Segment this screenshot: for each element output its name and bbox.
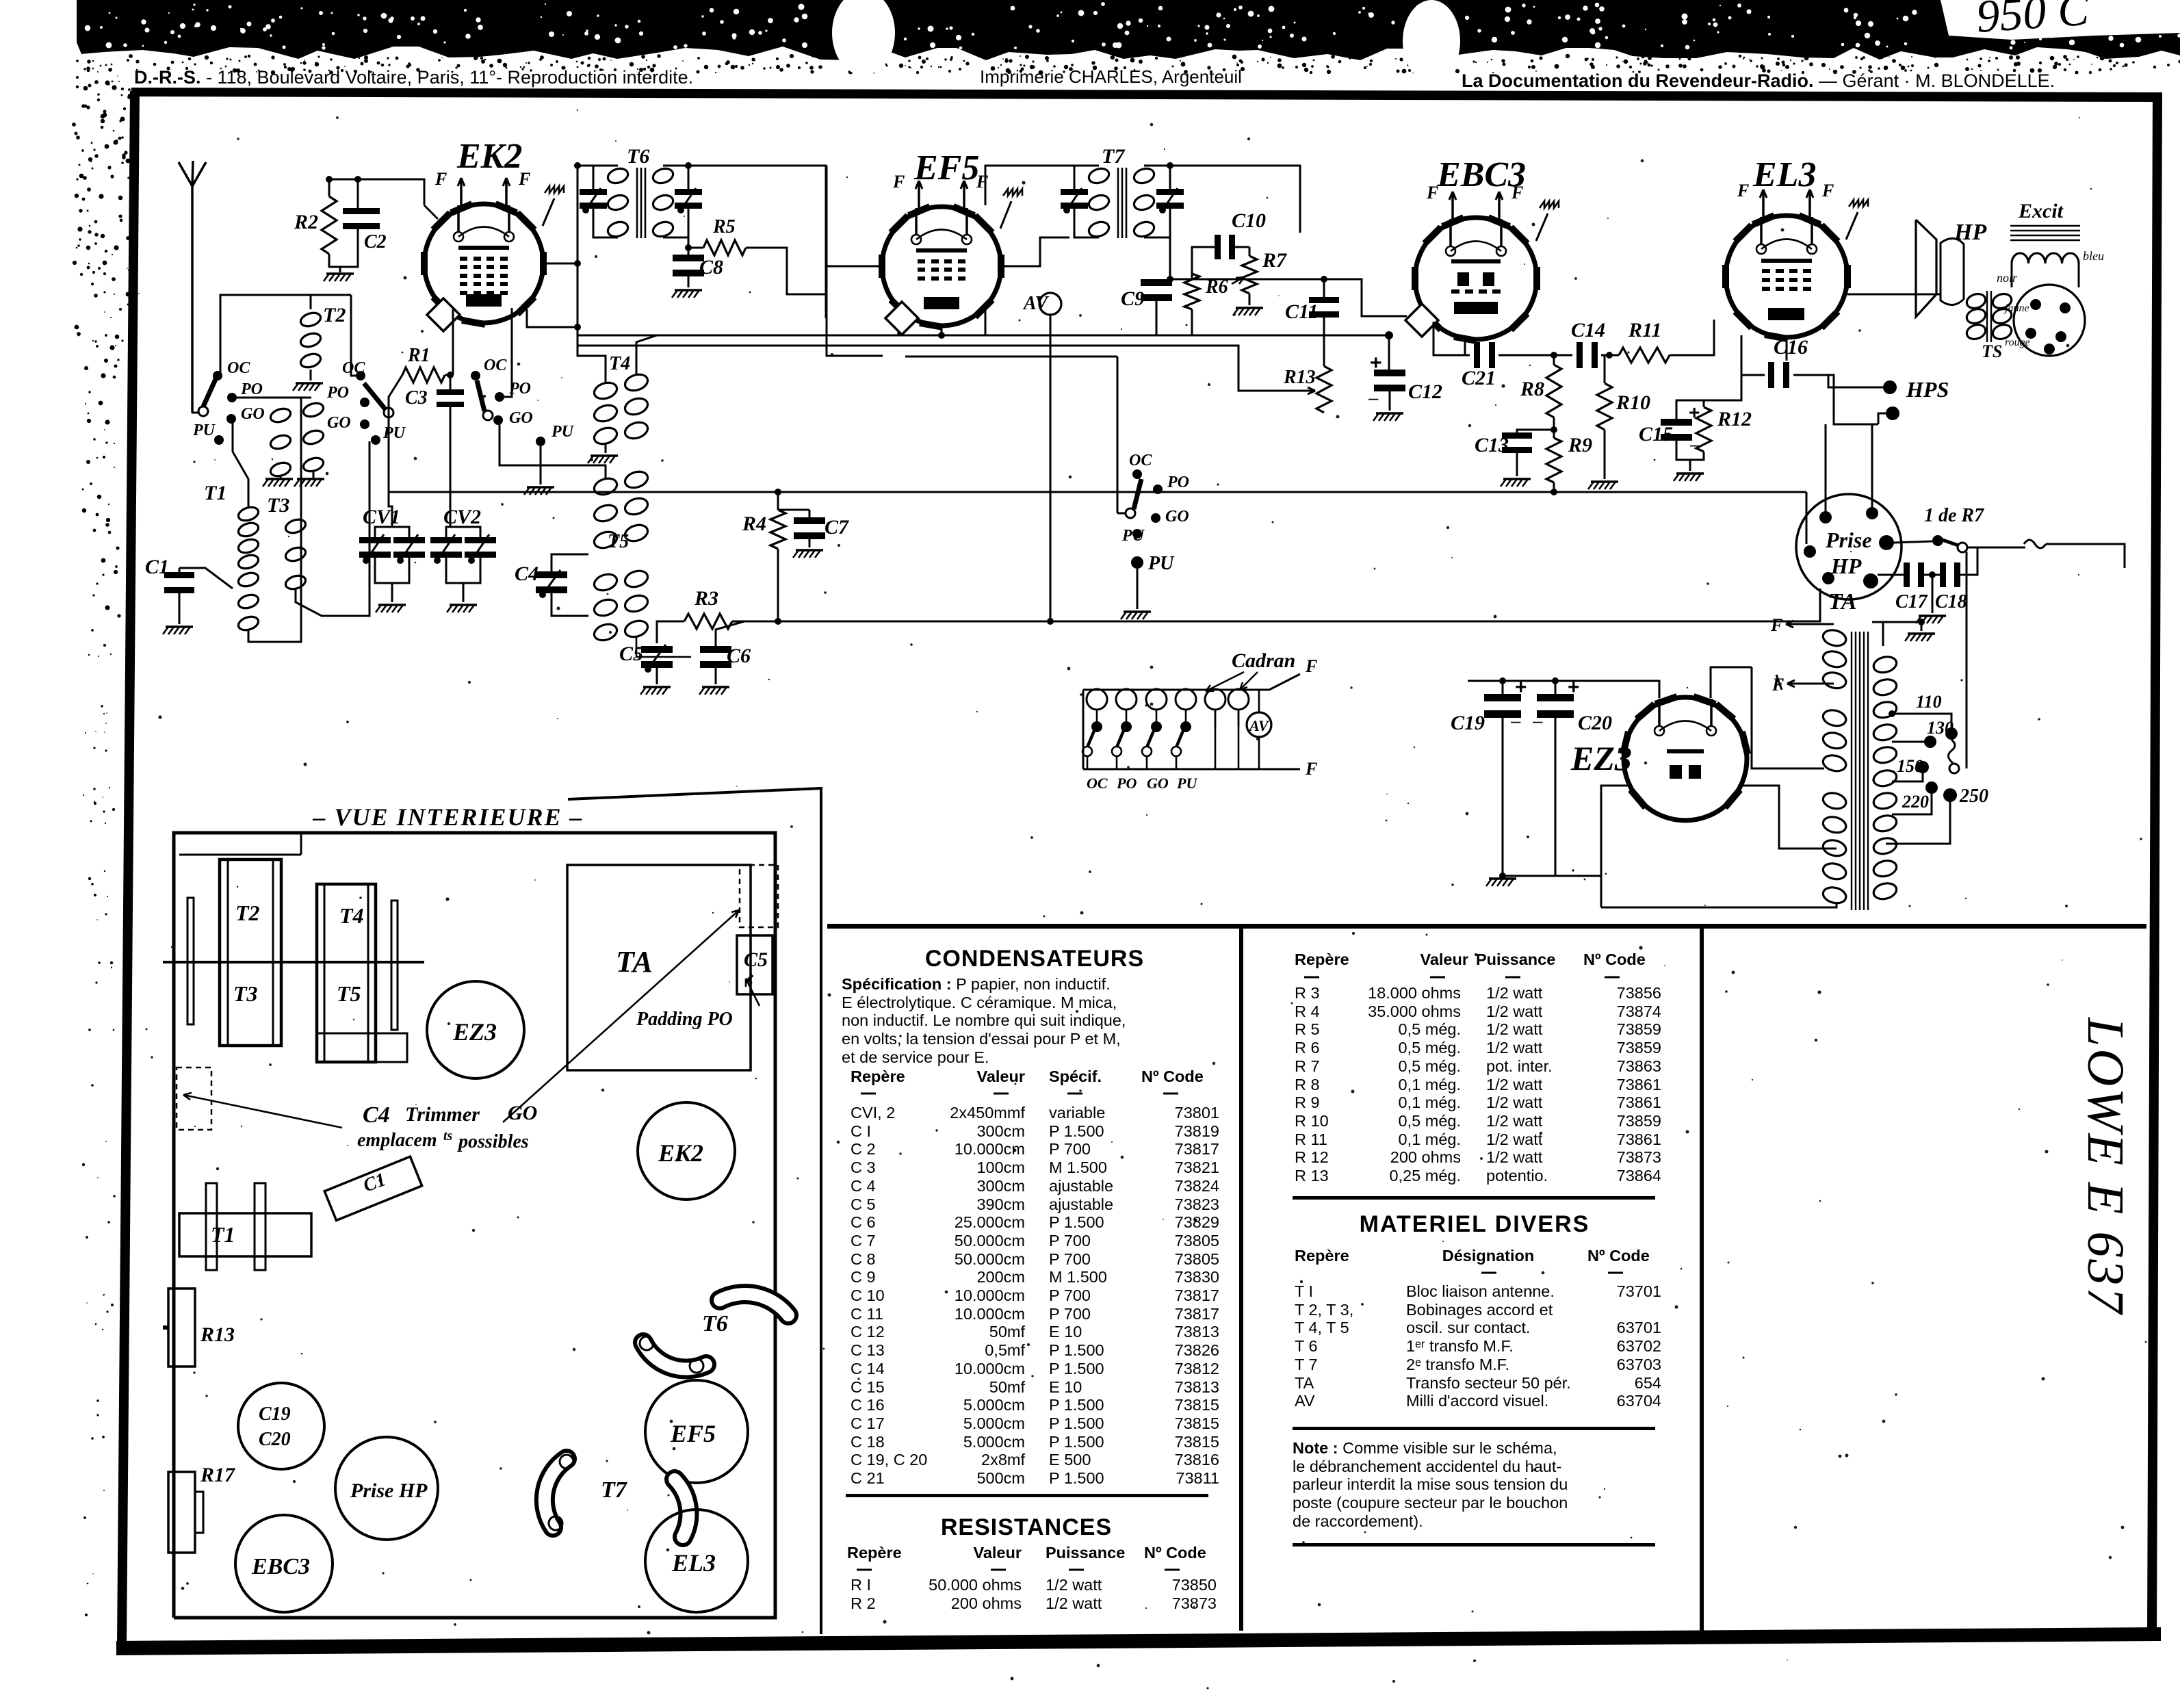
wires into Prise HP [1825, 424, 1827, 512]
svg-text:73817: 73817 [1175, 1286, 1219, 1304]
switch S4 pivot [1126, 508, 1135, 518]
svg-text:La Documentation du Revendeur-: La Documentation du Revendeur-Radio. — G… [1462, 70, 2055, 91]
capacitor C5 [641, 646, 673, 653]
variable capacitor CV2 [430, 537, 462, 543]
svg-text:73813: 73813 [1175, 1323, 1219, 1341]
svg-text:R 12: R 12 [1295, 1148, 1329, 1166]
svg-text:73829: 73829 [1175, 1213, 1219, 1231]
svg-text:–: – [1533, 710, 1543, 731]
svg-text:–: – [1690, 436, 1700, 454]
svg-text:T 2, T 3,: T 2, T 3, [1295, 1301, 1353, 1319]
svg-text:variable: variable [1049, 1104, 1105, 1122]
svg-text:GO: GO [1165, 508, 1189, 526]
wire S1 PO to T3 [232, 397, 311, 399]
svg-text:T6: T6 [627, 145, 649, 168]
resistor R1 [402, 367, 445, 383]
svg-text:T1: T1 [211, 1222, 235, 1247]
svg-text:T2: T2 [235, 901, 260, 925]
svg-text:10.000cm: 10.000cm [955, 1360, 1025, 1377]
svg-text:R5: R5 [712, 216, 736, 237]
svg-text:–: – [1511, 710, 1521, 731]
svg-text:R4: R4 [742, 513, 766, 535]
EF5 metallisation wiggle [1000, 201, 1011, 229]
ground T3a [265, 478, 293, 480]
svg-text:C6: C6 [727, 645, 751, 667]
plug socket Prise HP [1796, 494, 1902, 599]
svg-text:2x450mmf: 2x450mmf [950, 1104, 1025, 1122]
svg-text:OC: OC [227, 359, 250, 377]
svg-text:Prise HP: Prise HP [350, 1479, 428, 1502]
svg-text:MATERIEL DIVERS: MATERIEL DIVERS [1360, 1211, 1590, 1237]
svg-text:0,5 még.: 0,5 még. [1399, 1020, 1461, 1038]
capacitor C17 [1904, 562, 1910, 587]
svg-text:F: F [1737, 181, 1749, 200]
svg-text:10.000cm: 10.000cm [955, 1305, 1025, 1323]
svg-text:PO: PO [326, 384, 349, 402]
tube EF5 [882, 207, 1001, 326]
svg-text:73805: 73805 [1175, 1232, 1219, 1250]
capacitor C1 [164, 572, 194, 578]
svg-text:C 2: C 2 [851, 1140, 876, 1158]
svg-text:Valeur: Valeur [973, 1544, 1022, 1562]
svg-text:C4: C4 [363, 1102, 390, 1128]
svg-text:M 1.500: M 1.500 [1049, 1268, 1107, 1286]
svg-text:73815: 73815 [1175, 1433, 1219, 1451]
svg-text:1/2 watt: 1/2 watt [1486, 1112, 1543, 1130]
wire S2 to R1 [389, 375, 402, 492]
svg-text:Repère: Repère [1295, 950, 1349, 968]
interior T1 block [179, 1213, 311, 1256]
switch S2 contacts [356, 371, 365, 380]
wire EZ3 anode right [1738, 786, 1837, 849]
svg-text:Désignation: Désignation [1442, 1247, 1534, 1265]
wire T6 sec top to right [688, 166, 826, 318]
wire S4 ground [1137, 562, 1139, 609]
ground S4 [1124, 610, 1151, 613]
svg-text:F: F [1305, 656, 1317, 676]
svg-text:R 10: R 10 [1295, 1112, 1329, 1130]
tube EZ3 [1624, 697, 1747, 820]
svg-text:Excit: Excit [2018, 200, 2064, 222]
meter AV [1039, 293, 1061, 315]
TA tap 130 [1892, 741, 1930, 743]
svg-text:R7: R7 [1262, 249, 1287, 272]
svg-text:63704: 63704 [1617, 1392, 1661, 1410]
HPS terminals [1883, 380, 1897, 394]
left frame bar [117, 91, 140, 1644]
svg-text:73859: 73859 [1617, 1112, 1661, 1130]
svg-text:0,5 még.: 0,5 még. [1399, 1057, 1461, 1075]
ground C12 [1376, 412, 1403, 415]
TA tap 110 [1892, 714, 1951, 729]
wire T7 bottom to C9 junction [1170, 237, 1362, 279]
EZ3 filament top [1628, 681, 1659, 698]
svg-text:73816: 73816 [1175, 1451, 1219, 1468]
svg-text:Valeur: Valeur [976, 1067, 1025, 1085]
svg-text:1/2 watt: 1/2 watt [1486, 1039, 1543, 1057]
wire C4 [552, 554, 588, 575]
capacitor C8 [673, 255, 704, 261]
capacitor C9 [1141, 279, 1172, 286]
resistor R12 [1696, 407, 1711, 452]
transformer T7 secondary [1132, 166, 1156, 185]
T7 secondary trimmer [1156, 189, 1184, 195]
svg-text:M 1.500: M 1.500 [1049, 1159, 1107, 1176]
svg-text:Nº Code: Nº Code [1583, 950, 1646, 968]
capacitor C7 [794, 517, 825, 524]
tube EBC3 [1415, 218, 1537, 339]
svg-text:C I: C I [851, 1122, 871, 1140]
svg-text:P 1.500: P 1.500 [1049, 1213, 1104, 1231]
svg-text:73819: 73819 [1175, 1122, 1219, 1140]
svg-text:Nº Code: Nº Code [1144, 1544, 1206, 1562]
T6 primary trimmer cap [580, 189, 607, 195]
svg-text:D.-R.-S. - 118, Boulevard Volt: D.-R.-S. - 118, Boulevard Voltaire, Pari… [134, 67, 693, 88]
interior tube EZ3 [427, 981, 524, 1078]
svg-text:C 18: C 18 [851, 1433, 885, 1451]
capacitor C6 [700, 646, 731, 653]
svg-text:+: + [1515, 676, 1527, 699]
svg-text:R13: R13 [1283, 367, 1316, 388]
svg-text:T3: T3 [267, 494, 289, 517]
svg-text:C16: C16 [1774, 336, 1808, 359]
ground C7 [796, 549, 823, 552]
capacitor C2 [343, 208, 380, 214]
svg-text:C 13: C 13 [851, 1341, 885, 1359]
svg-text:73817: 73817 [1175, 1305, 1219, 1323]
svg-text:de raccordement).: de raccordement). [1293, 1512, 1423, 1530]
svg-text:Prise: Prise [1825, 528, 1872, 552]
svg-text:C17: C17 [1895, 591, 1928, 612]
svg-text:500cm: 500cm [976, 1469, 1025, 1487]
svg-text:C19: C19 [1451, 712, 1485, 734]
svg-text:EK2: EK2 [658, 1139, 703, 1167]
wire T1 top [231, 419, 248, 508]
svg-text:GO: GO [241, 405, 265, 423]
interior R17 [168, 1472, 195, 1553]
svg-text:P 1.500: P 1.500 [1049, 1360, 1104, 1377]
svg-text:R 9: R 9 [1295, 1094, 1320, 1111]
svg-text:C 15: C 15 [851, 1378, 885, 1396]
wires C15 R12 [1676, 400, 1704, 422]
svg-text:CVI, 2: CVI, 2 [851, 1104, 895, 1122]
svg-text:Spécification : P papier, non: Spécification : P papier, non inductif. [842, 975, 1111, 993]
interior EBC3 [235, 1515, 333, 1612]
svg-text:Repère: Repère [851, 1067, 905, 1085]
svg-text:73701: 73701 [1617, 1282, 1661, 1300]
wire CV1 to S2 [389, 417, 392, 527]
svg-text:F: F [518, 169, 530, 189]
svg-text:C10: C10 [1232, 209, 1266, 232]
svg-text:+: + [1370, 352, 1382, 374]
svg-text:150: 150 [1897, 756, 1923, 776]
svg-text:Nº Code: Nº Code [1587, 1247, 1650, 1265]
wire EK2 grid left [424, 205, 438, 219]
switch S1 contacts OC PO GO PU [213, 371, 222, 380]
svg-text:25.000cm: 25.000cm [955, 1213, 1025, 1231]
TA selector [1948, 740, 1955, 763]
svg-text:73873: 73873 [1172, 1594, 1217, 1612]
svg-text:T5: T5 [608, 531, 629, 552]
T7 primary trimmer [1061, 189, 1088, 195]
svg-text:F: F [1770, 615, 1782, 635]
transformer T4 [592, 380, 619, 401]
ground C1 [166, 625, 193, 628]
svg-text:73830: 73830 [1175, 1268, 1219, 1286]
svg-text:T4: T4 [339, 903, 364, 928]
svg-text:T5: T5 [337, 981, 361, 1006]
svg-text:F: F [1426, 183, 1438, 203]
wire EK2 plate to T6 [543, 263, 578, 265]
svg-text:PO: PO [240, 380, 263, 398]
T7 core [1117, 168, 1119, 238]
svg-text:EL3: EL3 [1752, 155, 1816, 194]
svg-text:T 6: T 6 [1295, 1337, 1318, 1355]
svg-text:E 10: E 10 [1049, 1378, 1082, 1396]
wire R2 C2 bottom to ground [329, 229, 358, 267]
svg-text:– VUE INTERIEURE –: – VUE INTERIEURE – [312, 803, 583, 831]
svg-text:le débranchement accidentel du: le débranchement accidentel du haut- [1293, 1458, 1561, 1475]
svg-text:200cm: 200cm [976, 1268, 1025, 1286]
bus A y=490 [578, 335, 1389, 337]
svg-text:73873: 73873 [1617, 1148, 1661, 1166]
svg-text:73861: 73861 [1617, 1094, 1661, 1111]
EBC3 shield diamond [1405, 304, 1438, 337]
svg-text:AV: AV [1022, 293, 1050, 314]
capacitor C10 [1215, 235, 1221, 259]
ground C13 [1503, 478, 1531, 480]
TA tap 220 [1892, 792, 1932, 814]
svg-text:C20: C20 [1578, 712, 1612, 734]
svg-text:R3: R3 [694, 587, 718, 610]
svg-text:63701: 63701 [1617, 1319, 1661, 1336]
meter AV dial [1247, 712, 1271, 737]
svg-text:P 1.500: P 1.500 [1049, 1414, 1104, 1432]
connector plug [2014, 285, 2085, 356]
svg-text:C15: C15 [1639, 423, 1673, 445]
svg-text:bleu: bleu [2083, 249, 2104, 263]
interior EF5 [645, 1380, 748, 1483]
wire EZ3 anode left [1601, 786, 1632, 907]
svg-text:73861: 73861 [1617, 1076, 1661, 1094]
wire mains switch [1967, 547, 2025, 549]
interior Prise HP [335, 1437, 438, 1540]
dial top bus [1082, 690, 1085, 769]
svg-text:EL3: EL3 [671, 1549, 716, 1577]
svg-text:T7: T7 [601, 1477, 628, 1503]
ground C5 [643, 686, 671, 688]
svg-text:OC: OC [1087, 775, 1108, 792]
resistor R11 [1619, 348, 1670, 363]
svg-text:C20: C20 [259, 1429, 291, 1450]
svg-text:R 7: R 7 [1295, 1057, 1320, 1075]
capacitor C4 [536, 571, 567, 578]
svg-text:R13: R13 [200, 1323, 235, 1346]
bus A2 y=505 [578, 346, 1266, 391]
transformer T6 secondary [651, 166, 675, 185]
TA secondary winding [1872, 654, 1898, 675]
svg-text:73859: 73859 [1617, 1020, 1661, 1038]
svg-text:C12: C12 [1408, 380, 1442, 403]
svg-text:CV2: CV2 [443, 506, 481, 528]
svg-text:10.000cm: 10.000cm [955, 1286, 1025, 1304]
bus B y=719 [389, 491, 1806, 493]
S3 PU ground [540, 446, 542, 484]
svg-text:63702: 63702 [1617, 1337, 1661, 1355]
wires C17 C18 [1878, 574, 1906, 576]
TA F feed arrows [1786, 623, 1834, 625]
wire EBC3 bottom to C21 bus [1433, 322, 1470, 355]
svg-text:R 4: R 4 [1295, 1002, 1320, 1020]
svg-text:C 17: C 17 [851, 1414, 885, 1432]
svg-text:73864: 73864 [1617, 1167, 1661, 1185]
svg-text:PU: PU [551, 423, 575, 441]
TA bottom lead [1601, 902, 1837, 907]
svg-text:GO: GO [509, 409, 533, 427]
svg-text:P 700: P 700 [1049, 1250, 1091, 1268]
capacitor C14 [1576, 342, 1583, 368]
svg-text:poste (coupure secteur par le: poste (coupure secteur par le bouchon [1293, 1494, 1568, 1512]
capacitor C21 [1474, 342, 1480, 368]
svg-text:10.000cm: 10.000cm [955, 1140, 1025, 1158]
svg-text:HP: HP [1954, 220, 1986, 245]
svg-text:F: F [1821, 181, 1834, 200]
svg-text:P 1.500: P 1.500 [1049, 1341, 1104, 1359]
wire S4 pivot left [1117, 513, 1126, 515]
EK2 grid verticals [452, 309, 454, 375]
svg-text:220: 220 [1902, 792, 1929, 812]
svg-text:PO: PO [1116, 775, 1137, 792]
bottom frame bar [116, 1627, 2161, 1655]
svg-text:AV: AV [1248, 717, 1270, 734]
svg-text:50.000 ohms: 50.000 ohms [929, 1576, 1022, 1594]
dial bottom bus [1083, 768, 1300, 771]
svg-text:PU: PU [1121, 527, 1145, 545]
svg-text:potentio.: potentio. [1486, 1167, 1548, 1185]
svg-text:5.000cm: 5.000cm [963, 1414, 1025, 1432]
EK2 metallisation wiggle [543, 198, 554, 226]
svg-text:noir: noir [1997, 271, 2018, 285]
chassis outline [174, 833, 775, 1618]
svg-text:AV: AV [1295, 1392, 1315, 1410]
wire T6 left top bus [578, 165, 593, 167]
wires C19 C20 [1502, 681, 1504, 697]
svg-text:Valeur: Valeur [1420, 950, 1468, 968]
coil T3c lower [284, 517, 307, 535]
svg-text:EK2: EK2 [456, 137, 522, 176]
potentiometer R13 [1316, 366, 1332, 413]
svg-text:parleur interdit la mise sous: parleur interdit la mise sous tension du [1293, 1475, 1568, 1493]
svg-text:T I: T I [1295, 1282, 1313, 1300]
resistances2 bottom rule [1293, 1196, 1655, 1200]
svg-text:P 700: P 700 [1049, 1305, 1091, 1323]
svg-text:0,5 még.: 0,5 még. [1399, 1039, 1461, 1057]
svg-text:C1: C1 [145, 556, 169, 578]
svg-text:C 10: C 10 [851, 1286, 885, 1304]
svg-text:Spécif.: Spécif. [1049, 1067, 1102, 1085]
svg-text:C5: C5 [619, 643, 643, 665]
svg-text:R8: R8 [1520, 378, 1544, 400]
punch hole right [1403, 0, 1460, 82]
dashed trimmer boxes [177, 1067, 211, 1130]
svg-text:Puissance: Puissance [1046, 1544, 1125, 1562]
svg-text:73805: 73805 [1175, 1250, 1219, 1268]
svg-text:Cadran: Cadran [1232, 649, 1295, 672]
tuning shaft [163, 961, 424, 963]
svg-text:C 9: C 9 [851, 1268, 876, 1286]
svg-text:T3: T3 [233, 981, 258, 1006]
svg-text:1 de R7: 1 de R7 [1924, 505, 1984, 526]
svg-text:73801: 73801 [1175, 1104, 1219, 1122]
svg-text:ts: ts [443, 1128, 453, 1143]
svg-text:PU: PU [1176, 775, 1197, 792]
wire excit leads [2011, 263, 2013, 287]
svg-text:R1: R1 [407, 345, 430, 366]
resistor R6 [1184, 274, 1199, 309]
wire S4 feed [1117, 357, 1119, 513]
svg-text:pot. inter.: pot. inter. [1486, 1057, 1553, 1075]
svg-text:T 4, T 5: T 4, T 5 [1295, 1319, 1349, 1336]
T5 lower coils [592, 571, 619, 593]
excitation coil Excit [2010, 225, 2080, 227]
ground C17 C18 [1919, 614, 1946, 617]
svg-text:ajustable: ajustable [1049, 1177, 1113, 1195]
svg-text:C 14: C 14 [851, 1360, 885, 1377]
interior C1 [324, 1156, 421, 1220]
interior T7 strips [545, 1459, 567, 1527]
wire EK2 to bus A [527, 309, 578, 327]
materiel bottom rule [1293, 1427, 1655, 1430]
bus y519 to C14 [1498, 354, 1572, 357]
svg-text:OC: OC [484, 357, 507, 374]
svg-text:F: F [976, 172, 988, 192]
svg-text:73815: 73815 [1175, 1396, 1219, 1414]
svg-text:2x8mf: 2x8mf [981, 1451, 1025, 1468]
capacitor C16 [1768, 362, 1774, 388]
svg-text:110: 110 [1916, 692, 1942, 712]
svg-text:T6: T6 [702, 1311, 728, 1336]
svg-text:C5: C5 [744, 948, 768, 971]
transformer T7 primary [1074, 166, 1099, 171]
svg-text:Imprimerie CHARLES, Argenteuil: Imprimerie CHARLES, Argenteuil [980, 66, 1242, 87]
svg-text:C 3: C 3 [851, 1159, 876, 1176]
svg-text:EBC3: EBC3 [251, 1554, 310, 1579]
wire T7 top right [1170, 166, 1300, 233]
svg-text:+: + [1568, 676, 1580, 699]
capacitor C19 electrolytic [1484, 694, 1521, 701]
svg-text:PU: PU [192, 422, 216, 439]
svg-text:C21: C21 [1462, 367, 1496, 389]
svg-text:GO: GO [327, 414, 351, 432]
EL3 metallisation wiggle [1846, 212, 1858, 240]
svg-text:73815: 73815 [1175, 1414, 1219, 1432]
coil T2 [299, 311, 322, 328]
svg-text:R10: R10 [1615, 391, 1650, 414]
svg-text:HPS: HPS [1906, 377, 1949, 402]
svg-text:R11: R11 [1628, 319, 1661, 341]
svg-text:1/2 watt: 1/2 watt [1046, 1594, 1102, 1612]
svg-text:E 500: E 500 [1049, 1451, 1091, 1468]
svg-text:73824: 73824 [1175, 1177, 1219, 1195]
svg-text:Milli d'accord visuel.: Milli d'accord visuel. [1406, 1392, 1548, 1410]
interior C5 box [737, 935, 773, 994]
svg-text:C 4: C 4 [851, 1177, 876, 1195]
junction dots [574, 324, 581, 331]
svg-text:F: F [1305, 759, 1317, 779]
svg-text:T 7: T 7 [1295, 1356, 1318, 1373]
svg-text:R 6: R 6 [1295, 1039, 1320, 1057]
svg-text:GO: GO [1147, 775, 1169, 792]
